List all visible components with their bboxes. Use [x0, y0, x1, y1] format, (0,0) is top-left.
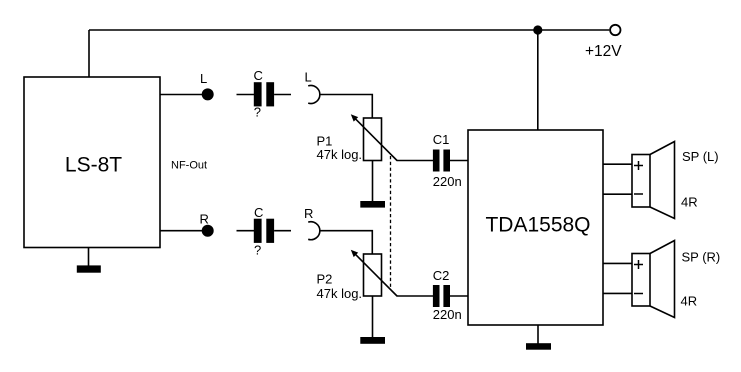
- capacitor C2 left plate: [433, 285, 440, 307]
- wire into capacitor C (R): [237, 230, 255, 232]
- svg-text:C1: C1: [433, 132, 450, 147]
- speaker SP(L) plus sign: [634, 165, 643, 167]
- capacitor C (L) left plate: [254, 82, 262, 106]
- speaker SP(R) plus sign: [634, 264, 643, 266]
- wire L output: [160, 94, 203, 96]
- wire out of capacitor C (L): [274, 94, 291, 96]
- wire TDA to SP(R) plus: [603, 262, 632, 264]
- wire C1 to TDA1558Q: [450, 160, 468, 162]
- ground LS-8T stem: [88, 248, 90, 267]
- node L terminal dot: [202, 88, 214, 100]
- svg-text:SP (L): SP (L): [682, 149, 719, 164]
- wire TDA to SP(L) plus: [603, 163, 632, 165]
- capacitor C2 right plate: [443, 285, 450, 307]
- capacitor C1 left plate: [433, 150, 440, 172]
- capacitor C (R) left plate: [254, 219, 262, 243]
- svg-text:47k log.: 47k log.: [317, 286, 363, 301]
- svg-text:4R: 4R: [681, 294, 698, 309]
- ground P2 bar: [360, 337, 385, 344]
- capacitor C (R) right plate: [266, 219, 274, 243]
- capacitor C1 right plate: [443, 150, 450, 172]
- wire jack R to P2: [320, 231, 373, 254]
- +12V terminal circle: [610, 25, 620, 35]
- speaker SP(L) cone: [650, 142, 675, 219]
- svg-text:R: R: [200, 212, 209, 227]
- wire out of capacitor C (R): [274, 230, 291, 232]
- junction dot on +12V rail: [533, 25, 542, 34]
- svg-text:NF-Out: NF-Out: [171, 160, 207, 172]
- jack L arc: [308, 86, 320, 104]
- potentiometer P1 body: [364, 118, 382, 161]
- potentiometer P2 wiper arrow: [354, 253, 397, 296]
- svg-text:C: C: [254, 68, 263, 83]
- wire rail down to TDA1558Q top: [537, 30, 539, 130]
- wire P1 wiper to C1: [397, 160, 434, 162]
- svg-text:R: R: [304, 206, 313, 221]
- wire into capacitor C (L): [237, 94, 255, 96]
- wire P2 wiper to C2: [397, 295, 434, 297]
- svg-text:TDA1558Q: TDA1558Q: [485, 214, 590, 237]
- svg-text:SP (R): SP (R): [682, 249, 721, 264]
- wire jack L to P1: [320, 95, 373, 119]
- svg-text:C: C: [254, 205, 263, 220]
- node R terminal dot: [202, 225, 214, 237]
- wire +12V top rail: [89, 29, 609, 31]
- svg-text:220n: 220n: [433, 174, 462, 189]
- ground P1 bar: [360, 201, 385, 208]
- box LS-8T: [24, 77, 160, 248]
- speaker SP(L) minus sign: [634, 193, 643, 195]
- potentiometer P1 wiper arrow: [354, 117, 397, 160]
- wire TDA to SP(L) minus: [603, 193, 632, 195]
- speaker SP(R) minus sign: [634, 293, 643, 295]
- svg-text:L: L: [305, 70, 312, 85]
- ground TDA stem: [537, 325, 539, 344]
- svg-text:LS-8T: LS-8T: [65, 154, 122, 177]
- potentiometer P2 body: [364, 254, 382, 296]
- ground P1 stem: [372, 161, 374, 202]
- ground P2 stem: [372, 296, 374, 338]
- svg-text:220n: 220n: [433, 307, 462, 322]
- svg-text:4R: 4R: [681, 194, 698, 209]
- box TDA1558Q: [468, 130, 603, 325]
- wire LS-8T top to rail: [88, 30, 90, 77]
- svg-text:?: ?: [254, 104, 261, 119]
- speaker SP(R) cone: [650, 241, 675, 318]
- svg-text:P2: P2: [317, 272, 333, 287]
- ground TDA bar: [526, 343, 551, 350]
- svg-text:47k log.: 47k log.: [317, 147, 363, 162]
- speaker SP(L) driver box: [632, 155, 650, 208]
- wire C2 to TDA1558Q: [450, 295, 468, 297]
- wire ganged dashed link P1-P2: [390, 156, 392, 287]
- jack R arc: [308, 222, 320, 240]
- capacitor C (L) right plate: [266, 82, 274, 106]
- wire R output: [160, 230, 203, 232]
- svg-text:C2: C2: [433, 268, 450, 283]
- ground LS-8T bar: [77, 265, 101, 272]
- speaker SP(R) driver box: [632, 254, 650, 307]
- svg-text:L: L: [200, 71, 207, 86]
- svg-text:?: ?: [254, 243, 261, 258]
- wire TDA to SP(R) minus: [603, 292, 632, 294]
- svg-text:+12V: +12V: [585, 43, 622, 60]
